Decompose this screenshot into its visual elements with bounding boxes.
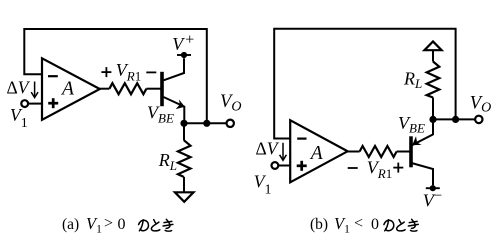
wire input terminal to plus input (b) (278, 165, 290, 167)
svg-text:(a): (a) (62, 216, 79, 233)
wire resistor R1 to base of Q2 (397, 151, 410, 153)
op-amp U2 minus input label (297, 138, 306, 140)
wire output line to VO terminal (184, 122, 227, 124)
svg-text:>: > (104, 215, 113, 232)
op-amp U1 (42, 58, 100, 120)
transistor Q2 emitter arrow (pointing into base) (412, 136, 421, 145)
transistor Q2 collector lead (down) (412, 163, 434, 185)
svg-text:A: A (309, 143, 323, 164)
wire op-amp output to resistor R1 (100, 88, 110, 90)
node: feedback junction on output line (b) (452, 116, 459, 123)
svg-text:ΔV: ΔV (7, 77, 31, 97)
resistor RL (b) (427, 62, 440, 98)
input terminal V1 (open circle) (21, 100, 28, 107)
negative supply arrow (hollow, down) (175, 192, 194, 202)
svg-text:RL: RL (403, 68, 422, 91)
svg-text:VR1: VR1 (367, 158, 392, 181)
transistor Q1 collector lead (164, 58, 185, 80)
transistor Q2 (PNP) base bar (409, 136, 413, 167)
svg-text:+: + (185, 32, 194, 49)
positive supply arrow (hollow, up) (424, 42, 441, 51)
svg-text:VO: VO (220, 92, 241, 114)
op-amp U1 plus input label (48, 98, 58, 108)
svg-text:V1: V1 (86, 214, 102, 236)
input terminal V1 (open circle) (b) (272, 162, 279, 169)
transistor Q1 emitter arrow (176, 99, 185, 109)
node: emitter / RL junction (b) (429, 116, 436, 123)
svg-text:V1: V1 (334, 214, 350, 236)
output terminal VO (open circle) (b) (475, 116, 482, 123)
transistor Q2 emitter lead (up) (412, 119, 433, 145)
arrow down for dV (b) (280, 143, 287, 161)
svg-text:RL: RL (158, 150, 177, 173)
wire node up to resistor RL (b) (432, 98, 434, 120)
svg-text:0: 0 (118, 216, 126, 233)
wire output line to VO terminal (b) (433, 118, 475, 120)
transistor Q1 emitter lead (164, 97, 185, 123)
wire feedback: minus input to top rail to output node (24, 29, 207, 123)
resistor R1 (b) (360, 146, 397, 157)
svg-text:VBE: VBE (398, 113, 425, 136)
caption (a) kana "no to ki" drawn as paths (139, 219, 173, 231)
svg-text:VR1: VR1 (116, 60, 141, 83)
caption (b) kana "no to ki" drawn as paths (384, 219, 418, 231)
op-amp U1 minus input label (48, 75, 58, 77)
wire resistor R1 to base of Q1 (146, 88, 160, 90)
wire op-amp output to resistor R1 (b) (348, 151, 360, 153)
node: emitter / RL junction (180, 120, 187, 127)
label + (right polarity of VR1) (b) (393, 163, 403, 173)
op-amp U2 plus input label (297, 161, 307, 171)
svg-text:(b): (b) (310, 216, 328, 233)
label - (left polarity of VR1) (b) (348, 167, 358, 169)
svg-text:VO: VO (470, 93, 491, 115)
wire feedback: minus input to top rail to output node (274, 29, 455, 139)
output terminal VO (open circle) (227, 120, 234, 127)
resistor RL (a) (178, 140, 191, 177)
svg-text:V−: V− (423, 188, 442, 210)
svg-text:V: V (172, 34, 185, 54)
arrow down for dV (31, 82, 38, 98)
svg-text:V1: V1 (254, 172, 272, 198)
wire node to resistor RL (183, 123, 185, 140)
supply terminal V+ (dot with bar) (177, 54, 191, 56)
svg-text:A: A (60, 79, 74, 100)
wire resistor RL to positive supply arrow (432, 50, 434, 61)
svg-text:ΔV: ΔV (256, 139, 280, 159)
supply terminal V- (dot with bar) (426, 187, 440, 189)
svg-text:<: < (354, 215, 363, 232)
transistor Q1 (NPN) base bar (160, 72, 164, 106)
wire resistor RL to ground arrow (183, 177, 185, 192)
resistor R1 (109, 83, 146, 94)
label + (left polarity of VR1) (101, 67, 111, 77)
svg-text:V1: V1 (10, 105, 28, 131)
node: feedback junction on output line (203, 120, 210, 127)
svg-text:0: 0 (371, 216, 379, 233)
op-amp U2 (290, 120, 347, 182)
label - (right polarity of VR1) (146, 71, 156, 73)
wire input terminal to plus input (28, 103, 42, 105)
